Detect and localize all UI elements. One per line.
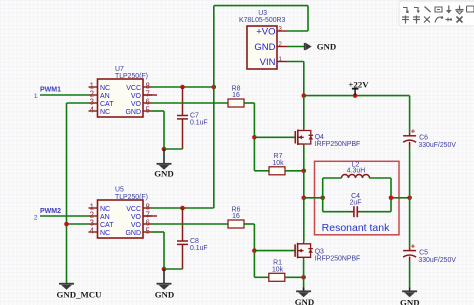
svg-text:0.1uF: 0.1uF xyxy=(190,120,208,127)
svg-text:U3: U3 xyxy=(258,10,267,17)
svg-text:330uF/250V: 330uF/250V xyxy=(418,257,456,264)
svg-text:IRFP250NPBF: IRFP250NPBF xyxy=(315,141,361,148)
svg-text:GND: GND xyxy=(125,109,141,116)
svg-text:2: 2 xyxy=(34,215,38,222)
svg-text:16: 16 xyxy=(232,213,240,220)
svg-text:NC: NC xyxy=(100,230,110,237)
svg-text:Resonant tank: Resonant tank xyxy=(322,222,390,234)
svg-text:U5: U5 xyxy=(115,187,124,194)
svg-text:PWM1: PWM1 xyxy=(40,86,61,93)
svg-text:4: 4 xyxy=(90,105,95,114)
svg-text:VO: VO xyxy=(131,101,142,108)
svg-text:VO: VO xyxy=(131,214,142,221)
svg-text:C5: C5 xyxy=(419,249,428,256)
svg-text:PWM2: PWM2 xyxy=(40,208,61,215)
svg-text:K78L05-500R3: K78L05-500R3 xyxy=(239,17,286,24)
svg-text:C6: C6 xyxy=(419,135,428,142)
svg-text:GND: GND xyxy=(295,297,315,305)
svg-text:GND: GND xyxy=(155,290,175,300)
svg-text:NC: NC xyxy=(100,206,110,213)
svg-text:NC: NC xyxy=(100,85,110,92)
svg-text:AN: AN xyxy=(100,93,110,100)
svg-text:10k: 10k xyxy=(272,267,284,274)
svg-text:GND: GND xyxy=(400,298,420,305)
svg-text:1: 1 xyxy=(34,93,38,100)
svg-text:VO: VO xyxy=(131,93,142,100)
svg-text:5: 5 xyxy=(146,226,151,235)
svg-text:TLP250(F): TLP250(F) xyxy=(115,194,148,201)
svg-text:VIN: VIN xyxy=(260,57,276,68)
svg-text:IRFP250NPBF: IRFP250NPBF xyxy=(315,255,361,262)
svg-text:+VO: +VO xyxy=(256,27,275,38)
svg-text:+22V: +22V xyxy=(348,79,369,89)
svg-text:GND: GND xyxy=(154,169,174,179)
svg-text:10k: 10k xyxy=(272,160,284,167)
svg-text:4.3uH: 4.3uH xyxy=(347,168,365,175)
svg-text:+: + xyxy=(411,127,416,136)
svg-text:GND_MCU: GND_MCU xyxy=(57,290,103,300)
svg-text:NC: NC xyxy=(100,109,110,116)
svg-text:VO: VO xyxy=(131,222,142,229)
svg-text:CAT: CAT xyxy=(100,101,114,108)
svg-text:+: + xyxy=(411,241,416,250)
svg-text:VCC: VCC xyxy=(126,85,141,92)
svg-text:GND: GND xyxy=(254,42,275,53)
svg-text:CAT: CAT xyxy=(100,222,114,229)
svg-text:GND: GND xyxy=(317,42,337,52)
svg-text:VCC: VCC xyxy=(126,206,141,213)
svg-text:16: 16 xyxy=(232,92,240,99)
svg-text:5: 5 xyxy=(146,105,151,114)
svg-text:0.1uF: 0.1uF xyxy=(190,245,208,252)
svg-text:C8: C8 xyxy=(190,238,199,245)
svg-text:4: 4 xyxy=(90,226,95,235)
svg-text:C7: C7 xyxy=(190,113,199,120)
svg-text:330uF/250V: 330uF/250V xyxy=(418,142,456,149)
svg-text:GND: GND xyxy=(125,230,141,237)
svg-text:TLP250(F): TLP250(F) xyxy=(115,73,148,80)
svg-text:2uF: 2uF xyxy=(350,200,362,207)
svg-text:AN: AN xyxy=(100,214,110,221)
